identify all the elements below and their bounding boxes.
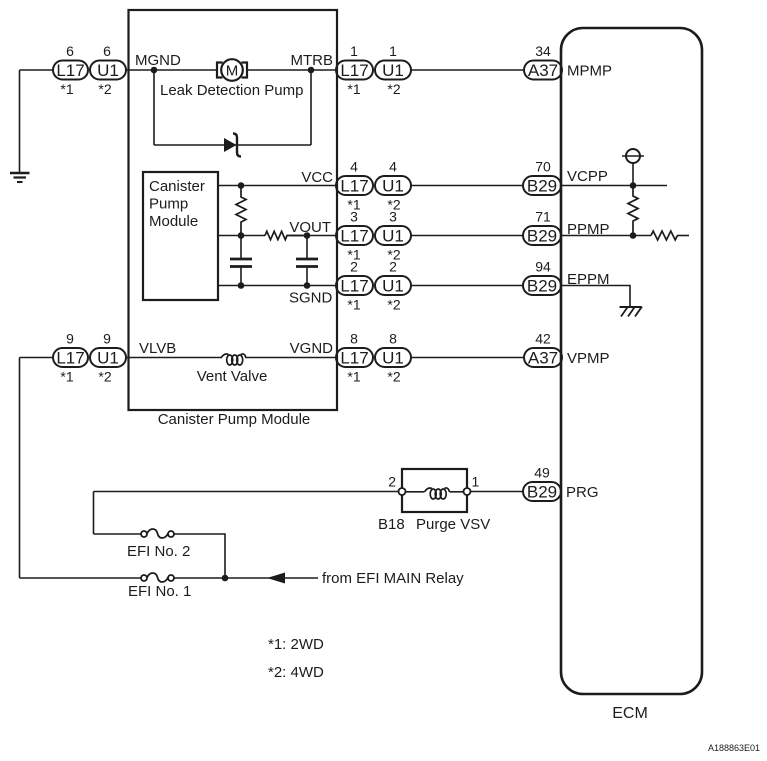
wire EPPM inside ECM (561, 286, 630, 308)
svg-text:EFI No. 2: EFI No. 2 (127, 543, 190, 560)
connector L17 pin 4 (336, 159, 373, 213)
svg-text:B29: B29 (527, 227, 557, 246)
junction MGND (151, 67, 158, 74)
svg-text:L17: L17 (340, 61, 368, 80)
svg-text:*1: *1 (347, 369, 360, 385)
svg-text:A37: A37 (528, 61, 558, 80)
svg-text:34: 34 (535, 43, 551, 59)
canister pump module inner box (143, 172, 218, 300)
connector A37 pin 34 (524, 43, 562, 80)
svg-text:ECM: ECM (612, 705, 648, 722)
svg-text:B29: B29 (527, 177, 557, 196)
inductor L2 (purge VSV coil) (406, 488, 464, 499)
svg-text:3: 3 (350, 209, 358, 225)
resistor R1 (VCC to VOUT) (236, 186, 246, 236)
svg-text:U1: U1 (382, 61, 404, 80)
wire VCC to ECM (412, 185, 524, 187)
capacitor C1 (230, 236, 252, 286)
label B18 Purge VSV (378, 516, 490, 533)
svg-text:from EFI MAIN Relay: from EFI MAIN Relay (322, 570, 464, 587)
ground (ECM internal) (620, 307, 643, 317)
svg-text:B29: B29 (527, 277, 557, 296)
svg-text:*1: *1 (60, 369, 73, 385)
svg-text:U1: U1 (382, 227, 404, 246)
svg-text:L17: L17 (340, 227, 368, 246)
wire MGND left (20, 69, 54, 71)
svg-text:*2: *2 (387, 81, 400, 97)
svg-text:1: 1 (389, 43, 397, 59)
wire VGND (245, 357, 336, 359)
connector U1 pin 2 (375, 259, 411, 313)
arrow from EFI MAIN relay (267, 573, 285, 584)
svg-text:B29: B29 (527, 483, 557, 502)
connector U1 pin 3 (375, 209, 411, 263)
svg-text:3: 3 (389, 209, 397, 225)
svg-text:*2: 4WD: *2: 4WD (268, 664, 324, 681)
wire EFI No.1 right (174, 577, 318, 579)
label Canister Pump Module (inner) (149, 178, 205, 230)
svg-text:B18: B18 (378, 516, 405, 533)
wire VGND to ECM (412, 357, 526, 359)
svg-text:L17: L17 (340, 349, 368, 368)
wire VOUT to ECM (412, 235, 524, 237)
wire purge branch vertical (93, 492, 95, 535)
wire EFI No.1 left (20, 577, 142, 579)
wire VLVB left vertical (19, 358, 21, 579)
ECM box U2 (561, 28, 702, 694)
svg-text:VCPP: VCPP (567, 168, 608, 185)
connector U1 pin 1 (375, 43, 411, 97)
wire PPMP inside ECM (561, 235, 651, 237)
connector L17 pin 3 (336, 209, 373, 263)
svg-text:42: 42 (535, 331, 551, 347)
svg-text:VCC: VCC (301, 169, 333, 186)
svg-text:Vent Valve: Vent Valve (197, 368, 268, 385)
svg-text:*2: *2 (387, 369, 400, 385)
svg-text:*2: *2 (98, 369, 111, 385)
svg-text:VLVB: VLVB (139, 340, 176, 357)
svg-text:U1: U1 (97, 61, 119, 80)
svg-text:EFI No. 1: EFI No. 1 (128, 583, 191, 600)
wire VOUT (218, 235, 265, 237)
svg-text:VPMP: VPMP (567, 350, 610, 367)
svg-text:Module: Module (149, 213, 198, 230)
fuse EFI No. 2 (141, 529, 174, 538)
wire MTRB to box edge (247, 69, 337, 71)
svg-text:71: 71 (535, 209, 551, 225)
svg-text:1: 1 (350, 43, 358, 59)
wire VOUT right (289, 235, 336, 237)
svg-text:Canister Pump Module: Canister Pump Module (158, 411, 311, 428)
svg-text:MPMP: MPMP (567, 63, 612, 80)
svg-text:70: 70 (535, 159, 551, 175)
resistor R3 (pull-up) (628, 186, 638, 236)
junction MTRB (308, 67, 315, 74)
svg-text:4: 4 (389, 159, 397, 175)
svg-text:9: 9 (66, 331, 74, 347)
svg-text:SGND: SGND (289, 290, 333, 307)
connector L17 pin 1 (336, 43, 373, 97)
svg-text:VGND: VGND (290, 340, 334, 357)
inductor L1 (vent valve coil) (221, 354, 246, 365)
resistor R2 (series VOUT) (265, 231, 307, 239)
purge VSV box B18 (402, 469, 467, 512)
junction EFI (222, 575, 229, 582)
svg-text:2: 2 (388, 474, 396, 490)
svg-text:4: 4 (350, 159, 358, 175)
connector B29 pin 94 (523, 259, 561, 296)
svg-text:1: 1 (472, 474, 480, 490)
svg-text:Leak Detection Pump: Leak Detection Pump (160, 82, 303, 99)
svg-text:A188863E01: A188863E01 (708, 743, 760, 753)
wire PPMP right (677, 235, 689, 237)
capacitor C2 (296, 236, 318, 286)
svg-text:9: 9 (103, 331, 111, 347)
connector B29 pin 49 (523, 465, 561, 502)
wire VLVB left (20, 357, 54, 359)
connector A37 pin 42 (524, 331, 562, 368)
wire power to VCPP (632, 163, 634, 186)
svg-text:A37: A37 (528, 349, 558, 368)
svg-text:MGND: MGND (135, 52, 181, 69)
junction VCC (238, 182, 245, 189)
svg-text:U1: U1 (382, 177, 404, 196)
connector U1 pin 8 (375, 331, 411, 385)
svg-text:*1: *1 (347, 81, 360, 97)
connector B29 pin 71 (523, 209, 561, 246)
svg-text:U1: U1 (382, 277, 404, 296)
connector L17 pin 2 (336, 259, 373, 313)
svg-text:L17: L17 (56, 61, 84, 80)
connector U1 pin 9 (90, 331, 126, 385)
resistor R4 (series PPMP) (651, 231, 677, 240)
svg-text:*2: *2 (98, 81, 111, 97)
wire diode branch left (153, 70, 155, 145)
svg-text:VOUT: VOUT (289, 219, 331, 236)
svg-text:Canister: Canister (149, 178, 205, 195)
junction VOUT right (304, 232, 311, 239)
connector L17 pin 8 (336, 331, 373, 385)
svg-text:*1: *1 (60, 81, 73, 97)
junction SGND right (304, 282, 311, 289)
canister pump module outer box (129, 10, 338, 410)
wire diode branch right (310, 70, 312, 145)
connector U1 pin 6 (90, 43, 126, 97)
svg-text:*1: *1 (347, 297, 360, 313)
pin 2 terminal (399, 488, 406, 495)
svg-text:49: 49 (534, 465, 550, 481)
junction VCPP (630, 182, 637, 189)
wire to ECM MPMP (412, 69, 525, 71)
svg-text:*1: 2WD: *1: 2WD (268, 636, 324, 653)
wire VCPP inside ECM (561, 185, 667, 187)
motor M (leak detection pump) (217, 59, 247, 81)
junction VOUT left (238, 232, 245, 239)
pin 1 terminal (464, 488, 471, 495)
fuse EFI No. 1 (141, 573, 174, 582)
connector B29 pin 70 (523, 159, 561, 196)
svg-text:8: 8 (389, 331, 397, 347)
wire VSV to ECM (471, 491, 525, 493)
svg-text:2: 2 (350, 259, 358, 275)
svg-text:6: 6 (66, 43, 74, 59)
wire EFI No.2 left (94, 533, 142, 535)
svg-text:M: M (226, 63, 239, 80)
svg-text:U1: U1 (97, 349, 119, 368)
wire MGND into box (126, 69, 217, 71)
svg-text:L17: L17 (56, 349, 84, 368)
connector L17 pin 6 (53, 43, 88, 97)
wire diode bottom (154, 144, 311, 146)
junction SGND left (238, 282, 245, 289)
svg-text:PRG: PRG (566, 484, 599, 501)
svg-text:U1: U1 (382, 349, 404, 368)
svg-text:L17: L17 (340, 177, 368, 196)
svg-text:94: 94 (535, 259, 551, 275)
svg-text:Purge VSV: Purge VSV (416, 516, 490, 533)
svg-text:2: 2 (389, 259, 397, 275)
wire VCC (218, 185, 336, 187)
svg-text:L17: L17 (340, 277, 368, 296)
svg-text:6: 6 (103, 43, 111, 59)
connector L17 pin 9 (53, 331, 88, 385)
wire SGND (218, 285, 336, 287)
junction PPMP (630, 232, 637, 239)
svg-text:MTRB: MTRB (291, 52, 334, 69)
wire purge to VSV (94, 491, 399, 493)
wire SGND to ECM (412, 285, 524, 287)
wire EFI No.2 right (174, 534, 225, 578)
power terminal symbol (622, 149, 644, 163)
wire VLVB into box (126, 357, 222, 359)
svg-text:*2: *2 (387, 297, 400, 313)
connector U1 pin 4 (375, 159, 411, 213)
ground (chassis, top-left) (10, 70, 30, 182)
svg-text:Pump: Pump (149, 196, 188, 213)
svg-text:8: 8 (350, 331, 358, 347)
diode D1 (zener) (224, 134, 241, 157)
